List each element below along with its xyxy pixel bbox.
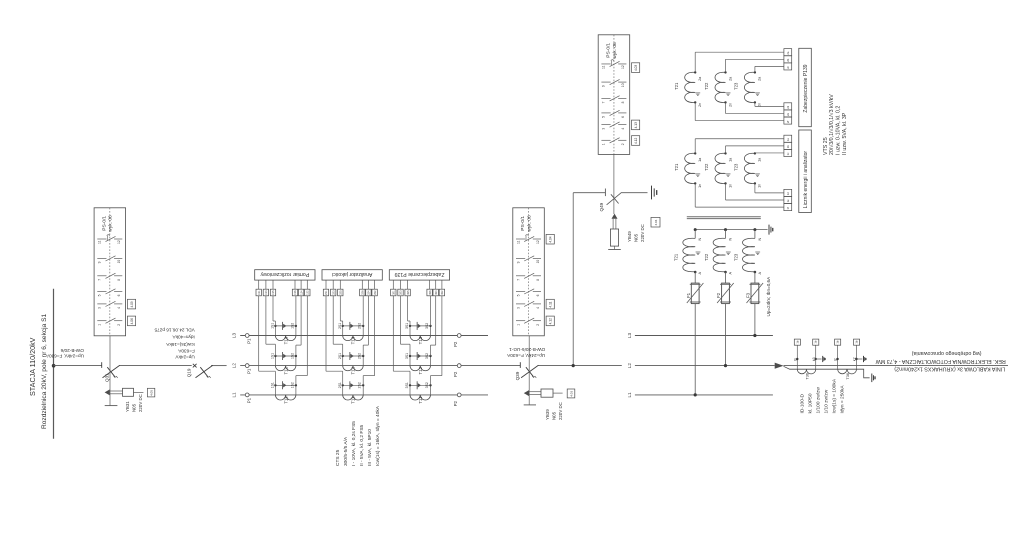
- svg-text:Q31: Q31: [105, 373, 110, 382]
- svg-text:OW-B-20/6-UG-1: OW-B-20/6-UG-1: [509, 347, 546, 352]
- svg-text:Icw(3s)=16kA: Icw(3s)=16kA: [165, 342, 194, 347]
- svg-text:L2: L2: [232, 363, 237, 369]
- svg-text:I - 10VA, kl. 0,2s FS5: I - 10VA, kl. 0,2s FS5: [351, 421, 357, 466]
- svg-text:3S1: 3S1: [405, 382, 409, 388]
- svg-text:9: 9: [516, 261, 520, 263]
- svg-text:PS-0/1: PS-0/1: [520, 216, 526, 231]
- svg-text:T23: T23: [734, 82, 739, 90]
- svg-text:REK. ELEKTROWNIA FOTOWOLTAICZN: REK. ELEKTROWNIA FOTOWOLTAICZNA - 4,73 M…: [875, 358, 1006, 364]
- svg-text:6: 6: [536, 294, 540, 296]
- svg-text:4.12: 4.12: [634, 138, 638, 144]
- svg-text:12: 12: [117, 240, 121, 244]
- svg-text:YB49: YB49: [627, 231, 632, 242]
- svg-text:9: 9: [602, 85, 606, 87]
- svg-text:1n: 1n: [728, 184, 732, 188]
- svg-text:4.05: 4.05: [150, 390, 154, 396]
- svg-text:1S1: 1S1: [271, 382, 275, 388]
- svg-text:YB39: YB39: [545, 409, 550, 420]
- svg-text:T36: T36: [846, 373, 850, 380]
- svg-text:3: 3: [98, 307, 102, 309]
- svg-text:1S2: 1S2: [290, 353, 294, 359]
- svg-text:OW-B-20/6: OW-B-20/6: [60, 348, 84, 353]
- svg-text:1f: 1f: [786, 207, 790, 209]
- svg-text:10: 10: [536, 260, 540, 264]
- svg-text:N05: N05: [551, 411, 556, 420]
- svg-text:T21: T21: [674, 82, 679, 90]
- svg-text:1: 1: [516, 324, 520, 326]
- svg-text:Up=24kV, F=630A: Up=24kV, F=630A: [45, 354, 84, 359]
- svg-text:1: 1: [602, 143, 606, 145]
- svg-text:k3: k3: [812, 357, 816, 361]
- svg-text:9: 9: [98, 261, 102, 263]
- svg-text:5: 5: [98, 294, 102, 296]
- svg-text:T12: T12: [283, 366, 288, 374]
- svg-text:1a: 1a: [758, 158, 762, 162]
- svg-text:wyk. 06: wyk. 06: [612, 42, 618, 59]
- svg-text:N: N: [698, 238, 702, 241]
- svg-text:PS-0/1: PS-0/1: [101, 216, 107, 231]
- svg-text:220V DC: 220V DC: [138, 394, 143, 412]
- svg-text:Icw(1s) = 16kA, Idyn = 40kA: Icw(1s) = 16kA, Idyn = 40kA: [375, 405, 381, 466]
- svg-text:LINIA KABLOWA 3x (XRUHAKXS 1x2: LINIA KABLOWA 3x (XRUHAKXS 1x240mm2): [894, 366, 1005, 372]
- svg-text:2S3: 2S3: [332, 290, 335, 295]
- svg-text:N05: N05: [131, 403, 136, 412]
- svg-text:7: 7: [602, 101, 606, 103]
- svg-text:2S2: 2S2: [358, 382, 362, 388]
- svg-text:3S2: 3S2: [441, 290, 444, 295]
- svg-text:YB31: YB31: [125, 401, 130, 412]
- svg-text:T12: T12: [351, 366, 356, 374]
- svg-text:11: 11: [602, 65, 606, 69]
- svg-text:10: 10: [621, 83, 625, 87]
- svg-text:Up=24kV: Up=24kV: [175, 355, 195, 360]
- svg-text:12: 12: [621, 65, 625, 69]
- svg-text:P2: P2: [453, 371, 458, 377]
- svg-text:1a: 1a: [698, 158, 702, 162]
- svg-text:4.03: 4.03: [634, 65, 638, 71]
- svg-text:Idyn=40kA: Idyn=40kA: [172, 334, 195, 339]
- svg-text:8: 8: [536, 279, 540, 281]
- svg-text:7: 7: [516, 279, 520, 281]
- svg-text:1S6: 1S6: [294, 290, 297, 295]
- svg-text:2S2: 2S2: [358, 323, 362, 329]
- svg-text:T11: T11: [351, 396, 356, 404]
- svg-text:L1: L1: [627, 392, 632, 398]
- svg-text:12: 12: [536, 240, 540, 244]
- svg-text:3S6: 3S6: [429, 290, 432, 295]
- svg-text:2n: 2n: [728, 103, 732, 107]
- svg-text:8: 8: [117, 279, 121, 281]
- svg-text:T23: T23: [734, 163, 739, 171]
- svg-text:Analizator jakości: Analizator jakości: [332, 271, 372, 277]
- svg-text:3S5: 3S5: [407, 290, 410, 295]
- svg-text:STACJA 110/20kV: STACJA 110/20kV: [28, 337, 37, 396]
- svg-text:P1: P1: [246, 397, 251, 403]
- svg-text:Idyn = 250kA: Idyn = 250kA: [839, 385, 845, 414]
- svg-text:P1: P1: [246, 338, 251, 344]
- svg-text:1S1: 1S1: [271, 323, 275, 329]
- svg-text:T21: T21: [674, 253, 679, 261]
- svg-text:3: 3: [516, 307, 520, 309]
- svg-text:wyk. 06: wyk. 06: [108, 215, 114, 232]
- svg-text:II - 5VA, kl. 0,2 FS5: II - 5VA, kl. 0,2 FS5: [359, 424, 365, 466]
- svg-text:11: 11: [516, 240, 520, 244]
- svg-text:I uzw. 0-10VA, kl. 0,2: I uzw. 0-10VA, kl. 0,2: [836, 106, 842, 155]
- svg-text:F2: F2: [716, 292, 721, 298]
- svg-text:Licznik energii i analizator: Licznik energii i analizator: [803, 151, 809, 209]
- svg-text:4.12: 4.12: [549, 318, 553, 324]
- svg-text:Rozdzielnica 20kV, pole nr 6,: Rozdzielnica 20kV, pole nr 6, sekcja S1: [41, 313, 48, 429]
- svg-text:L1: L1: [232, 392, 237, 398]
- svg-text:3S2: 3S2: [425, 382, 429, 388]
- svg-text:T12: T12: [418, 366, 423, 374]
- svg-text:II uzw. 5VA, kl. 3P: II uzw. 5VA, kl. 3P: [842, 112, 848, 155]
- svg-text:1S5: 1S5: [272, 290, 275, 295]
- svg-text:N: N: [729, 238, 733, 241]
- svg-text:4: 4: [536, 307, 540, 309]
- svg-text:F=630A: F=630A: [177, 348, 194, 353]
- svg-text:(wg odrębnego opracowania): (wg odrębnego opracowania): [911, 350, 981, 356]
- svg-text:4: 4: [621, 128, 625, 130]
- svg-text:2a: 2a: [698, 77, 702, 81]
- svg-text:1S1: 1S1: [271, 353, 275, 359]
- svg-text:T36: T36: [805, 373, 809, 380]
- svg-text:P2: P2: [453, 341, 458, 347]
- svg-text:l3: l3: [793, 358, 797, 361]
- svg-text:L3: L3: [627, 333, 632, 339]
- svg-text:4.09: 4.09: [130, 301, 134, 307]
- svg-text:8: 8: [621, 101, 625, 103]
- svg-text:220V DC: 220V DC: [558, 402, 563, 420]
- svg-text:1n: 1n: [758, 184, 762, 188]
- svg-text:2S1: 2S1: [338, 382, 342, 388]
- svg-text:2: 2: [117, 324, 121, 326]
- svg-text:P1: P1: [246, 368, 251, 374]
- svg-text:2a: 2a: [758, 77, 762, 81]
- svg-text:T22: T22: [704, 253, 709, 261]
- svg-text:4: 4: [117, 307, 121, 309]
- svg-text:1S2: 1S2: [290, 382, 294, 388]
- svg-text:3S4: 3S4: [435, 290, 438, 295]
- svg-text:T13: T13: [351, 336, 356, 344]
- svg-text:2a: 2a: [728, 77, 732, 81]
- svg-text:1S3: 1S3: [265, 290, 268, 295]
- svg-text:2S2: 2S2: [374, 290, 377, 295]
- svg-text:11: 11: [98, 240, 102, 244]
- svg-text:2S2: 2S2: [358, 353, 362, 359]
- svg-text:T13: T13: [283, 336, 288, 344]
- svg-text:4.04: 4.04: [549, 236, 553, 242]
- svg-text:3S2: 3S2: [425, 353, 429, 359]
- svg-text:1/10 zw/zw: 1/10 zw/zw: [823, 389, 829, 413]
- svg-text:10: 10: [117, 260, 121, 264]
- svg-text:4.04: 4.04: [654, 219, 658, 225]
- svg-text:Zabezpieczenie P139: Zabezpieczenie P139: [394, 271, 444, 277]
- svg-text:ID-100-D: ID-100-D: [799, 394, 805, 414]
- svg-text:1S2: 1S2: [290, 323, 294, 329]
- svg-text:3S1: 3S1: [405, 353, 409, 359]
- svg-text:wyk. 06: wyk. 06: [526, 215, 532, 232]
- svg-text:Zabezpieczenie P139: Zabezpieczenie P139: [803, 64, 809, 112]
- svg-text:1S1: 1S1: [258, 290, 261, 295]
- svg-text:2S1: 2S1: [338, 323, 342, 329]
- svg-text:2: 2: [621, 143, 625, 145]
- svg-text:Q19: Q19: [187, 368, 192, 377]
- svg-text:kl. 10P50: kl. 10P50: [807, 393, 813, 413]
- svg-text:6: 6: [621, 116, 625, 118]
- svg-text:220V DC: 220V DC: [640, 224, 645, 242]
- svg-text:2S1: 2S1: [325, 290, 328, 295]
- svg-text:5: 5: [602, 116, 606, 118]
- svg-text:20/√3/0,1/√3/0,1/√3 kV/kV: 20/√3/0,1/√3/0,1/√3 kV/kV: [828, 94, 835, 155]
- svg-text:Pomiar rozliczeniowy: Pomiar rozliczeniowy: [260, 271, 309, 277]
- svg-text:3S1: 3S1: [405, 323, 409, 329]
- svg-text:CTS 25: CTS 25: [335, 449, 341, 466]
- svg-text:P2: P2: [453, 400, 458, 406]
- svg-text:Up=24kV, Ibn=0,6A: Up=24kV, Ibn=0,6A: [766, 276, 771, 317]
- svg-text:Q39: Q39: [515, 371, 520, 380]
- svg-text:1S4: 1S4: [300, 290, 303, 295]
- svg-text:2S1: 2S1: [338, 353, 342, 359]
- svg-text:1S2: 1S2: [307, 290, 310, 295]
- svg-text:Up=24kV, F=630A: Up=24kV, F=630A: [506, 353, 545, 358]
- svg-text:A: A: [758, 272, 762, 275]
- svg-text:6: 6: [117, 294, 121, 296]
- svg-text:4.03: 4.03: [570, 391, 574, 397]
- svg-text:VTS 25: VTS 25: [823, 137, 829, 155]
- svg-text:T21: T21: [674, 163, 679, 171]
- svg-text:4.11: 4.11: [549, 301, 553, 307]
- svg-text:T11: T11: [418, 396, 423, 404]
- svg-text:T13: T13: [418, 336, 423, 344]
- svg-text:7: 7: [98, 279, 102, 281]
- svg-text:F3: F3: [746, 292, 751, 298]
- svg-text:F1: F1: [686, 292, 691, 298]
- svg-text:PS-0/1: PS-0/1: [605, 43, 611, 58]
- svg-text:2S6: 2S6: [362, 290, 365, 295]
- svg-text:3: 3: [602, 128, 606, 130]
- svg-text:T23: T23: [733, 253, 738, 261]
- svg-text:2S5: 2S5: [340, 290, 343, 295]
- svg-text:L3: L3: [232, 333, 237, 339]
- svg-text:2n: 2n: [698, 103, 702, 107]
- svg-text:1n: 1n: [698, 184, 702, 188]
- svg-text:l2: l2: [834, 358, 838, 361]
- svg-text:4.06: 4.06: [130, 318, 134, 324]
- svg-text:Q49: Q49: [599, 202, 604, 211]
- svg-text:T11: T11: [283, 396, 288, 404]
- svg-text:T22: T22: [704, 163, 709, 171]
- svg-text:T22: T22: [704, 82, 709, 90]
- svg-text:Icw(1s) = 100kA: Icw(1s) = 100kA: [831, 378, 837, 413]
- svg-text:L2: L2: [627, 363, 632, 369]
- svg-text:4.13: 4.13: [634, 122, 638, 128]
- svg-text:3S3: 3S3: [400, 290, 403, 295]
- svg-text:5: 5: [516, 294, 520, 296]
- svg-text:2S4: 2S4: [368, 290, 371, 295]
- svg-text:1a: 1a: [728, 158, 732, 162]
- svg-text:1/100 zw/zw: 1/100 zw/zw: [815, 387, 821, 414]
- svg-text:N: N: [758, 238, 762, 241]
- svg-text:300/5-5/5 A/A: 300/5-5/5 A/A: [343, 436, 349, 466]
- svg-text:N05: N05: [633, 233, 638, 242]
- svg-text:3S2: 3S2: [425, 323, 429, 329]
- svg-text:1: 1: [98, 324, 102, 326]
- svg-text:VDL 24.06.16 p275: VDL 24.06.16 p275: [154, 327, 195, 332]
- svg-text:2f: 2f: [786, 121, 790, 123]
- svg-text:III - 5VA, kl. 5P10: III - 5VA, kl. 5P10: [367, 429, 373, 466]
- svg-text:2: 2: [536, 324, 540, 326]
- svg-text:k2: k2: [853, 357, 857, 361]
- svg-text:3S1: 3S1: [393, 290, 396, 295]
